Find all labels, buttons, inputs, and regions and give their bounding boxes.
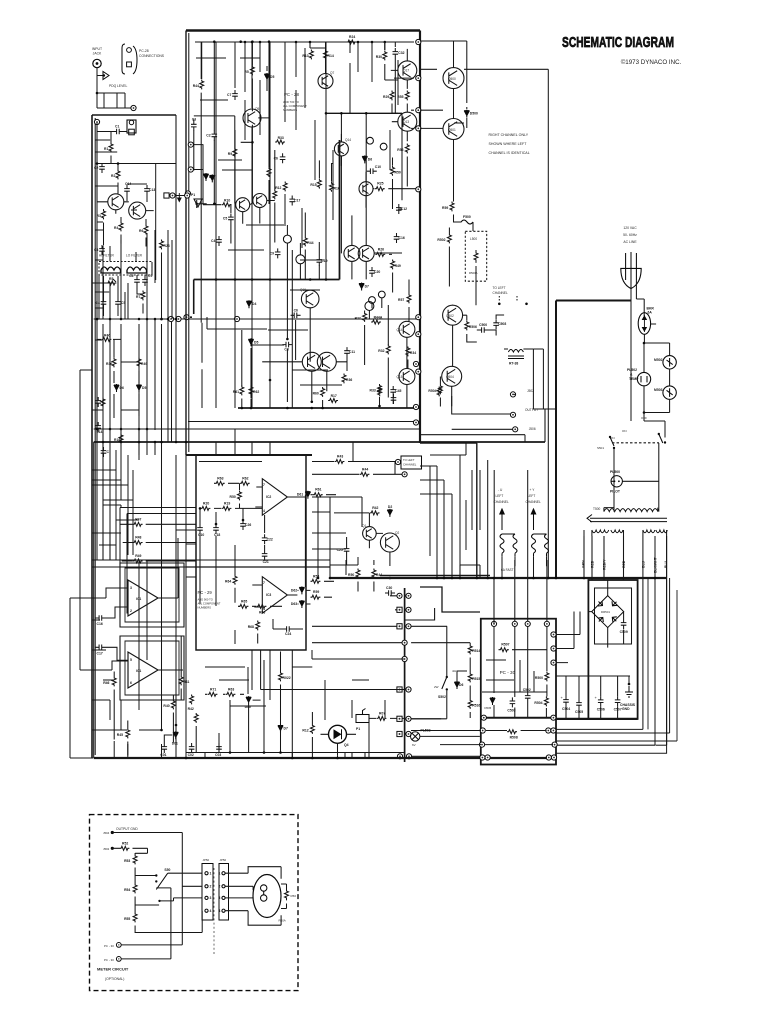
resistor R56 — [397, 144, 409, 154]
svg-text:R9: R9 — [228, 152, 232, 156]
svg-text:R6: R6 — [139, 229, 143, 233]
capacitor C32 — [393, 48, 405, 58]
svg-text:D6: D6 — [120, 386, 124, 390]
svg-text:R49: R49 — [395, 264, 401, 268]
junction bus578 — [486, 577, 489, 580]
resistor R52 — [120, 841, 130, 850]
diode D5 — [136, 384, 146, 392]
svg-text:R27: R27 — [355, 317, 361, 321]
wire pc28 right mesh 2 — [287, 213, 381, 403]
wire meter loop bottom — [225, 911, 281, 926]
junction mesh3 — [295, 41, 298, 44]
capacitor C1 — [113, 125, 123, 135]
capacitor C3 — [94, 245, 105, 255]
junction bottom — [185, 757, 188, 760]
resistor R12b — [302, 724, 314, 734]
junction left box — [160, 441, 163, 444]
wire mid column long — [216, 127, 302, 408]
capacitor C504 — [562, 696, 570, 711]
svg-text:ALL COMPONENT: ALL COMPONENT — [198, 602, 221, 606]
transistor Q14 — [334, 142, 348, 156]
pad PC-28 pin 3 — [416, 108, 421, 113]
svg-text:(OPTIONAL): (OPTIONAL) — [105, 977, 124, 981]
svg-text:TO LEFT: TO LEFT — [403, 458, 415, 462]
wire left verticals — [103, 324, 162, 560]
wire primary ends — [604, 508, 659, 512]
svg-text:R500: R500 — [535, 676, 543, 680]
resistor R42 — [370, 506, 380, 515]
pad pc30 r3 — [551, 660, 556, 665]
svg-text:R15: R15 — [310, 183, 316, 187]
svg-text:R33: R33 — [278, 136, 284, 140]
wire bottom mesh add — [176, 651, 390, 759]
junction lower a — [311, 401, 314, 404]
capacitor C500 — [478, 323, 488, 333]
capacitor C18 — [213, 524, 220, 537]
junction bottom — [311, 757, 314, 760]
junction bus578 — [555, 577, 558, 580]
svg-text:METER CIRCUIT: METER CIRCUIT — [97, 967, 129, 972]
resistor R26 — [160, 240, 170, 250]
wire bottom bus y758 — [94, 757, 556, 759]
svg-text:JACK: JACK — [93, 52, 102, 56]
resistor R1 — [104, 143, 113, 153]
wire meter loop low — [225, 897, 253, 899]
resistor R44A — [371, 316, 383, 325]
svg-text:R50: R50 — [348, 573, 354, 577]
svg-text:R50: R50 — [291, 894, 297, 898]
svg-text:T500: T500 — [593, 507, 600, 511]
svg-text:50- 60Hz: 50- 60Hz — [623, 233, 637, 237]
pad inter-board c — [185, 193, 190, 198]
svg-text:2: 2 — [130, 609, 132, 613]
resistor R9 — [228, 148, 237, 158]
diode D505 — [490, 697, 495, 705]
transistor Q17 — [398, 61, 417, 80]
junction lc a — [498, 303, 501, 306]
svg-text:R12: R12 — [275, 186, 281, 190]
pad pc30 t3 — [525, 621, 530, 626]
wire bus y575 partial — [380, 575, 490, 577]
junction pc28 r — [365, 112, 368, 115]
svg-text:LEFT: LEFT — [496, 494, 504, 498]
svg-text:R53: R53 — [124, 859, 130, 863]
resistor R20 — [201, 501, 211, 510]
capacitor C509 — [620, 619, 628, 634]
capacitor C508 — [493, 319, 506, 329]
svg-text:R26: R26 — [378, 247, 384, 251]
pad pc30 r7a — [546, 755, 551, 760]
junction mesh3 — [371, 41, 374, 44]
resistor R43b — [273, 190, 277, 200]
capacitor C40 — [391, 394, 397, 404]
svg-text:C508: C508 — [498, 322, 506, 326]
junction left box — [109, 318, 112, 321]
svg-text:6V: 6V — [412, 743, 416, 747]
junction pc28 r — [309, 278, 312, 281]
resistor R19 — [222, 501, 232, 510]
junction pc28 r — [286, 338, 289, 341]
svg-text:R50: R50 — [395, 170, 401, 174]
svg-text:PL500: PL500 — [610, 470, 620, 474]
resistor R15 — [101, 398, 105, 408]
svg-text:R44A: R44A — [374, 316, 383, 320]
svg-text:R36: R36 — [346, 378, 352, 382]
junction mesh3 — [317, 577, 320, 580]
op-amp IC2 — [262, 479, 287, 516]
fuse F501 — [500, 534, 517, 556]
junction left box — [175, 441, 178, 444]
wire stair bold b — [405, 608, 435, 620]
svg-text:CHANNEL: CHANNEL — [403, 463, 417, 467]
wire mesh g — [556, 612, 580, 663]
terminal pc30 b — [116, 957, 121, 962]
wire M502-M503 — [644, 369, 670, 413]
transistor Q19 — [344, 245, 360, 261]
svg-text:R10: R10 — [224, 199, 230, 203]
wire leftbox mesh3 — [92, 450, 139, 560]
pad mid bus c — [413, 420, 418, 425]
svg-text:D61: D61 — [297, 493, 303, 497]
capacitor C10c — [197, 524, 204, 537]
resistor R17 — [328, 394, 338, 403]
wire top loop — [420, 41, 548, 578]
svg-text:OUTPUT GND: OUTPUT GND — [116, 827, 138, 831]
diode circle D9 — [378, 291, 385, 298]
wire R43 net — [312, 462, 405, 475]
wire Q1 Q2 coupling — [118, 184, 154, 211]
wire lower-left nets — [97, 339, 139, 420]
wire bridge inputs — [592, 536, 624, 580]
wire meter loop top — [225, 867, 281, 879]
transistor Q500 — [443, 68, 464, 89]
svg-text:R48: R48 — [135, 536, 141, 540]
resistor R14 — [324, 50, 334, 60]
svg-text:R514: R514 — [472, 649, 480, 653]
svg-text:C6: C6 — [274, 156, 278, 160]
pad input eyelet — [131, 105, 136, 110]
pad col p8b — [406, 731, 411, 736]
wire pc30 meter links — [121, 888, 171, 959]
svg-text:Q2: Q2 — [395, 531, 399, 535]
wire left box rungs2 — [95, 135, 176, 319]
svg-text:C45: C45 — [395, 389, 401, 393]
wire plug leads — [631, 280, 644, 421]
svg-text:P1: P1 — [356, 727, 360, 731]
wire left box rungs — [92, 230, 139, 560]
svg-text:IC3: IC3 — [266, 593, 271, 597]
pad bus left b — [176, 316, 181, 321]
wire bottom bus inner — [186, 752, 404, 754]
svg-text:4: 4 — [210, 909, 212, 913]
connector JP50 socket — [219, 864, 229, 921]
diode D7b — [278, 725, 288, 733]
wire PC-28 verticals top — [202, 42, 396, 192]
transistor Q15c — [317, 352, 336, 371]
capacitor C26a — [240, 520, 251, 530]
thermistor RT-38 coil — [508, 350, 524, 366]
resistor R53 — [124, 855, 137, 865]
resistor R44b — [303, 237, 313, 247]
resistor R32 — [378, 345, 390, 355]
svg-text:Q17: Q17 — [403, 69, 409, 73]
wire Q6 Q8 net — [203, 198, 275, 224]
transistor E04 output — [451, 370, 453, 372]
junction bus578 — [436, 577, 439, 580]
svg-text:R52: R52 — [122, 841, 128, 845]
diode D01 — [172, 731, 179, 745]
capacitor C12 — [396, 204, 407, 214]
capacitor C4 — [96, 298, 107, 308]
svg-text:C1: C1 — [115, 125, 119, 129]
transformer secondary winding 2 — [643, 530, 667, 533]
junction pc28 r — [241, 407, 244, 410]
pin JP50 plug 1 — [205, 872, 212, 876]
lo filter element — [127, 267, 147, 273]
svg-text:R1: R1 — [104, 147, 108, 151]
resistor R62 — [249, 386, 259, 396]
svg-text:TO LEFT: TO LEFT — [493, 286, 506, 290]
pad inter-board a — [164, 193, 169, 198]
svg-text:R62: R62 — [253, 390, 259, 394]
wire main bus y578 — [330, 577, 666, 579]
bridge diode a — [598, 601, 603, 606]
resistor R24 — [347, 35, 357, 44]
chassis ground symbol — [620, 683, 636, 711]
svg-text:R2: R2 — [111, 174, 115, 178]
svg-text:R506: R506 — [469, 325, 477, 329]
pad mid bus a — [413, 361, 418, 366]
junction pc28 — [213, 40, 216, 43]
resistor R40 — [163, 700, 175, 710]
junction top rail d — [384, 41, 387, 44]
pad pc30 r2 — [551, 646, 556, 651]
resistor R46b — [103, 677, 116, 687]
wire L500 out — [449, 228, 476, 306]
wire divider taps — [135, 876, 202, 933]
svg-text:S50: S50 — [164, 868, 170, 872]
pot P1 — [191, 193, 202, 207]
resistor R33 — [275, 136, 285, 144]
pad pc30 r4 — [551, 715, 556, 720]
capacitor C03 — [215, 743, 222, 757]
arrow -U feed — [500, 509, 504, 530]
connector block — [127, 120, 136, 133]
wire stair bold d — [92, 560, 186, 567]
svg-text:GND: GND — [622, 707, 630, 711]
svg-text:CONNECTIONS: CONNECTIONS — [139, 54, 165, 58]
svg-text:6A FAST: 6A FAST — [501, 568, 514, 572]
wire bridge leads — [588, 580, 623, 648]
wire pc29 bottom — [200, 534, 258, 644]
pin JP50 socket 1 — [219, 872, 226, 876]
resistor R45b — [117, 729, 130, 739]
wire switch out — [160, 873, 203, 901]
resistor R61b — [313, 488, 323, 497]
svg-text:- U: - U — [498, 488, 503, 492]
junction pc28 — [239, 40, 242, 43]
svg-text:7: 7 — [263, 483, 265, 487]
resistor R36b — [342, 374, 352, 384]
resistor R44d — [372, 569, 382, 579]
svg-text:R46: R46 — [103, 681, 109, 685]
wire IC1a feedback loop — [120, 563, 184, 627]
capacitor C507 — [614, 696, 622, 711]
pad pc30 l3 — [479, 742, 484, 747]
capacitor C9b — [270, 248, 281, 258]
resistor R5 — [244, 66, 254, 76]
svg-text:LEFT: LEFT — [528, 494, 536, 498]
wire pc28 rungs3 — [196, 58, 342, 385]
svg-text:D6: D6 — [368, 157, 372, 161]
resistor R12 — [275, 182, 287, 192]
junction pc28 r — [340, 112, 343, 115]
resistor R44c — [360, 467, 370, 476]
meter circuit dashed enclosure — [90, 815, 299, 991]
junction lower b — [269, 379, 272, 382]
svg-text:Q501: Q501 — [448, 128, 456, 132]
svg-text:R59: R59 — [313, 590, 319, 594]
pad inter-board b — [170, 193, 175, 198]
capacitor C10 — [367, 165, 381, 174]
svg-text:C21: C21 — [263, 560, 269, 564]
svg-text:R07: R07 — [379, 711, 385, 715]
resistor R3 — [97, 210, 106, 220]
diode circle D8 — [369, 297, 376, 304]
junction 494 — [493, 577, 496, 580]
resistor R41 — [179, 676, 189, 686]
svg-text:D7: D7 — [365, 285, 369, 289]
junction pc28 — [251, 141, 254, 144]
wire long pair y560 — [92, 559, 330, 561]
svg-text:Q13: Q13 — [403, 120, 409, 124]
wire mesh j — [80, 370, 92, 670]
svg-text:C30: C30 — [386, 586, 392, 590]
wire right tail a — [557, 745, 667, 753]
svg-text:C22: C22 — [267, 537, 273, 541]
svg-text:TEMP: TEMP — [629, 377, 639, 381]
junction q2 em — [389, 577, 392, 580]
wire r52 net — [112, 848, 147, 853]
svg-text:D2: D2 — [388, 505, 392, 509]
svg-text:C9: C9 — [270, 251, 274, 255]
junction left box — [96, 428, 99, 431]
resistor R49b — [391, 260, 401, 270]
capacitor C16L — [96, 615, 106, 626]
resistor R58 — [311, 574, 321, 583]
svg-text:S501: S501 — [597, 446, 604, 450]
wire mesh c — [216, 429, 270, 455]
svg-text:Q4: Q4 — [344, 743, 349, 747]
wire out bus right — [533, 409, 556, 442]
resistor R26b — [375, 247, 385, 256]
wire RT38 net — [504, 349, 533, 409]
junction left box — [154, 441, 157, 444]
resistor R71 — [208, 687, 218, 696]
svg-text:Q14: Q14 — [345, 138, 351, 142]
wire meter to R50 — [281, 884, 287, 909]
capacitor C6 — [291, 308, 301, 318]
wire left box outer edge — [91, 115, 93, 758]
svg-text:3: 3 — [210, 896, 212, 900]
svg-text:PC - 30: PC - 30 — [104, 958, 114, 962]
resistor R36 — [106, 358, 116, 368]
svg-text:R4: R4 — [114, 226, 118, 230]
transistor Q14b — [399, 321, 415, 337]
wire pc30 bottom rows — [485, 731, 553, 758]
wire mesh d — [318, 442, 395, 578]
wire driver nets — [440, 305, 504, 407]
resistor R13 — [302, 50, 313, 60]
svg-text:1: 1 — [210, 872, 212, 876]
wire jp pin4 feed — [201, 911, 203, 933]
junction left box — [154, 318, 157, 321]
svg-text:4: 4 — [219, 909, 221, 913]
svg-text:R65: R65 — [241, 599, 247, 603]
junction left box — [185, 441, 188, 444]
diode D06b — [454, 681, 463, 689]
diode circle D11 — [296, 255, 305, 264]
capacitor C502 — [523, 688, 531, 702]
wire midcol mesh3 — [430, 466, 480, 556]
diode D06 — [245, 696, 252, 709]
resistor R5007 — [499, 643, 510, 652]
svg-text:C10: C10 — [198, 533, 204, 537]
resistor R50c — [348, 569, 360, 579]
junction pc28 — [251, 40, 254, 43]
svg-text:R504: R504 — [428, 389, 436, 393]
meter circuit center dashed — [213, 868, 215, 955]
svg-text:C16: C16 — [97, 622, 103, 626]
svg-text:R502: R502 — [437, 238, 445, 242]
resistor R27 — [355, 312, 367, 322]
svg-text:R44: R44 — [193, 84, 199, 88]
junction pc28 r — [250, 407, 253, 410]
pad pc30 l4a — [480, 755, 485, 760]
wire mesh f — [186, 753, 365, 759]
junction bottom — [160, 729, 163, 732]
junction bus578 — [451, 577, 454, 580]
svg-text:R45: R45 — [117, 733, 123, 737]
svg-text:R29: R29 — [383, 95, 389, 99]
transistor Q504 — [442, 366, 462, 386]
svg-text:R13: R13 — [302, 54, 308, 58]
svg-text:C26: C26 — [245, 523, 251, 527]
wire BLU taps — [556, 530, 667, 746]
wire right corner loop — [556, 578, 670, 733]
svg-text:PC - 28: PC - 28 — [284, 92, 299, 97]
junction pc28 — [268, 40, 271, 43]
svg-text:R36: R36 — [106, 362, 112, 366]
power switch S501 pole A — [609, 436, 615, 449]
svg-text:R61: R61 — [315, 488, 321, 492]
svg-text:D7: D7 — [284, 727, 288, 731]
pad tag — [395, 459, 400, 464]
pad col p9a — [397, 754, 402, 759]
pad col p6b — [406, 687, 411, 692]
diode D6 — [114, 384, 124, 392]
svg-text:OFF: OFF — [641, 416, 647, 420]
junction mesh3 — [199, 507, 202, 510]
pad ch out a — [402, 472, 407, 477]
pad bus left a — [168, 316, 173, 321]
wire mesh b — [176, 462, 196, 578]
pad J506 b — [513, 427, 518, 432]
svg-text:R42: R42 — [188, 707, 194, 711]
svg-text:BLK/WHT: BLK/WHT — [654, 556, 658, 573]
wire opamp nets — [92, 538, 183, 679]
svg-text:R19: R19 — [224, 501, 230, 505]
